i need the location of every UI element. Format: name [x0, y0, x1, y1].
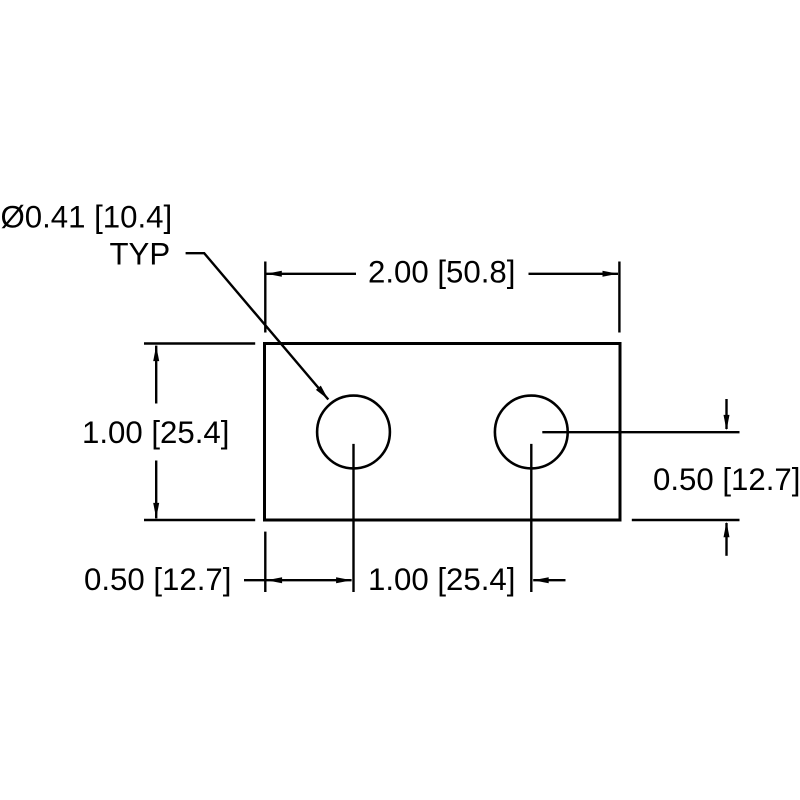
svg-text:1.00 [25.4]: 1.00 [25.4] [82, 415, 229, 450]
dim 0.50 right: lower arrow tail [725, 523, 727, 556]
dim 1.00 extension line top [144, 342, 255, 344]
arrowhead dim 0.50 right top [724, 415, 730, 431]
bottom dims: centerline below hole H1 [352, 444, 354, 592]
dim 2.00 dimension line left segment [266, 273, 356, 275]
svg-text:1.00 [25.4]: 1.00 [25.4] [368, 562, 515, 597]
hole H1 (left) [317, 396, 390, 469]
bottom dims: extension line from plate left edge [264, 532, 266, 592]
arrowhead dim 0.50 bottom left [267, 577, 283, 583]
dim 2.00 extension line left [264, 262, 266, 333]
leader line from TYP to hole H1 [186, 253, 329, 399]
svg-text:TYP: TYP [110, 236, 171, 271]
arrowhead dim 1.00 bottom right outside [533, 577, 549, 583]
svg-text:2.00 [50.8]: 2.00 [50.8] [368, 255, 515, 290]
dim 1.00 dimension line upper segment [155, 346, 157, 404]
arrowhead leader at hole H1 [316, 386, 328, 400]
svg-text:0.50 [12.7]: 0.50 [12.7] [653, 462, 800, 497]
dim 0.50 right: plate bottom edge extension [632, 519, 740, 521]
bottom dims: centerline below hole H2 [530, 444, 532, 592]
dim 1.00 bottom: right outside arrow tail [533, 579, 565, 581]
plate outline [265, 344, 621, 521]
dim 1.00 extension line bottom [144, 519, 255, 521]
arrowhead dim 0.50 right bottom [724, 522, 730, 538]
arrowhead dim 1.00 bottom [153, 503, 159, 519]
dim 0.50 right: upper arrow tail [725, 399, 727, 429]
dim 2.00 extension line right [618, 262, 620, 333]
arrowhead dim 0.50 bottom right [336, 577, 352, 583]
dim 1.00 dimension line lower segment [155, 461, 157, 519]
hole H2 (right) [495, 396, 568, 469]
svg-text:Ø0.41 [10.4]: Ø0.41 [10.4] [1, 200, 173, 235]
dim 0.50 bottom: dimension line with text tail [244, 579, 352, 581]
arrowhead dim 2.00 left [266, 271, 282, 277]
svg-text:0.50 [12.7]: 0.50 [12.7] [84, 562, 231, 597]
dim 0.50 right: centerline extension from hole H2 [542, 431, 739, 433]
dim 2.00 dimension line right segment [529, 273, 619, 275]
arrowhead dim 1.00 top [153, 346, 159, 362]
arrowhead dim 2.00 right [603, 271, 619, 277]
